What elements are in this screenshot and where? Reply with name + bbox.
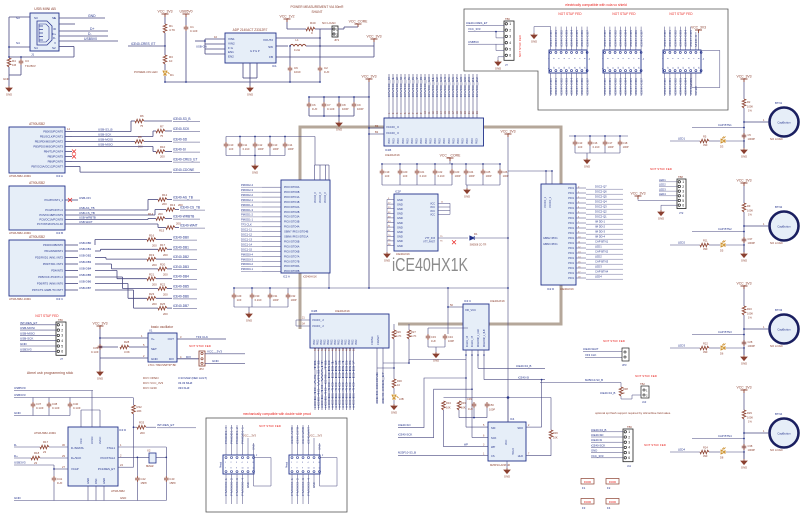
- power VCC_3V3 decouple: [366, 79, 373, 82]
- svg-text:IC2 D: IC2 D: [547, 287, 554, 291]
- svg-text:C16: C16: [593, 141, 598, 145]
- svg-text:1: 1: [291, 462, 292, 464]
- wire bank0 pin 8: [420, 74, 422, 118]
- svg-text:PMOD0-4: PMOD0-4: [241, 252, 253, 256]
- svg-text:PIO3 /DTO7B: PIO3 /DTO7B: [284, 260, 300, 263]
- capacitor C29: [232, 293, 237, 299]
- svg-text:iCE40-DB1: iCE40-DB1: [554, 29, 558, 47]
- svg-text:NOT STUF FED: NOT STUF FED: [635, 374, 658, 378]
- svg-text:PMOD1-1: PMOD1-1: [241, 218, 253, 222]
- svg-text:1UF: 1UF: [57, 481, 63, 485]
- capacitor C31: [268, 293, 273, 299]
- svg-text:VCC: VCC: [79, 438, 83, 444]
- wire xfi vcc: [448, 306, 463, 308]
- svg-text:USB5V0: USB5V0: [179, 10, 192, 14]
- resistor R3: [163, 55, 167, 64]
- wire bank1 row 16: [576, 267, 586, 269]
- wire caps gnd rail b: [466, 184, 500, 186]
- wire J5 bot pin 5: [690, 73, 692, 96]
- svg-text:iCE40-SI: iCE40-SI: [173, 148, 186, 152]
- svg-text:33.33 MHZ: 33.33 MHZ: [178, 381, 193, 385]
- stub GND 1: [387, 203, 394, 205]
- wire J3 top pin 7: [640, 27, 642, 50]
- wire bank1 row 0: [576, 187, 586, 189]
- svg-text:NO LOAD: NO LOAD: [770, 344, 783, 348]
- svg-text:1UF: 1UF: [431, 339, 436, 343]
- svg-text:DIV: DIV: [169, 357, 174, 361]
- svg-text:USB-CS_TB: USB-CS_TB: [79, 211, 95, 215]
- svg-text:OUT: OUT: [168, 337, 175, 341]
- wire R40 to vout: [319, 29, 321, 38]
- svg-text:4.7K: 4.7K: [411, 334, 417, 338]
- svg-text:PMOD2-4: PMOD2-4: [241, 183, 253, 187]
- svg-text:NOT STUF FED: NOT STUF FED: [558, 12, 582, 16]
- svg-text:USB-DB5: USB-DB5: [79, 273, 92, 277]
- svg-text:12: 12: [319, 468, 321, 470]
- wire J2 bot pin 5: [576, 73, 578, 96]
- svg-text:AT90USB2-16MU: AT90USB2-16MU: [34, 431, 56, 435]
- svg-text:SW: SW: [268, 45, 273, 49]
- wire bank1 row 9: [576, 232, 586, 234]
- wire bank2 pin 5: [332, 348, 334, 410]
- svg-text:100P: 100P: [342, 107, 349, 111]
- svg-text:iCE40-AS_TB: iCE40-AS_TB: [173, 196, 193, 200]
- svg-text:iCE40-DB1: iCE40-DB1: [668, 29, 672, 47]
- wire iCE40-DB2 a: [95, 257, 106, 259]
- resistor R21: [147, 277, 156, 281]
- wire wait: [65, 223, 158, 225]
- svg-text:D+: D+: [90, 27, 94, 31]
- ground decouple row: [336, 121, 342, 127]
- svg-text:10: 10: [169, 59, 173, 63]
- wire IC3D gnd pin: [87, 486, 89, 501]
- svg-text:iCE40-CRES_ET: iCE40-CRES_ET: [466, 21, 488, 25]
- wire J9 top pin 3: [308, 425, 310, 455]
- wire C6 top: [308, 97, 310, 102]
- wire usb5v0 to C1: [185, 17, 187, 25]
- svg-text:USB-DB3: USB-DB3: [79, 260, 92, 264]
- capacitor C2: [318, 66, 323, 72]
- svg-text:VCC: VCC: [430, 211, 435, 213]
- capacitor C28: [742, 340, 747, 346]
- power VCC_3V3 JT2: [635, 196, 642, 199]
- svg-text:GND: GND: [694, 86, 698, 95]
- wire bank3 row 17: [262, 270, 281, 272]
- wire iCE40-DB0 b: [94, 240, 96, 246]
- svg-text:GBIN3 /PIO1: GBIN3 /PIO1: [543, 243, 558, 246]
- wire J9 top pin 2: [302, 425, 304, 455]
- wire cdone row: [80, 171, 172, 173]
- svg-text:iCE40-DB2: iCE40-DB2: [559, 77, 563, 95]
- svg-text:R26: R26: [396, 330, 401, 334]
- junction creset: [164, 45, 166, 47]
- svg-text:iCE40-DB2: iCE40-DB2: [559, 29, 563, 47]
- svg-text:SHUNT: SHUNT: [312, 10, 323, 14]
- svg-text:8MHZ: 8MHZ: [146, 464, 154, 468]
- svg-text:R5: R5: [703, 135, 707, 139]
- svg-text:USB-AS_TB: USB-AS_TB: [79, 206, 95, 210]
- svg-text:PIO1: PIO1: [568, 237, 574, 240]
- svg-text:GND: GND: [97, 376, 103, 380]
- svg-text:JT2: JT2: [679, 211, 684, 215]
- svg-text:RCLKOR_1_CLK: RCLKOR_1_CLK: [478, 329, 480, 347]
- svg-text:PMOD1-4: PMOD1-4: [224, 426, 228, 444]
- svg-text:M25P10-AVM N6: M25P10-AVM N6: [490, 463, 511, 467]
- wire bank2 pin 8: [342, 348, 344, 410]
- svg-text:100P: 100P: [273, 147, 279, 151]
- svg-text:LED2: LED2: [678, 241, 685, 245]
- wire LED2 JT2: [659, 185, 677, 187]
- flash IC4: [488, 422, 526, 461]
- wire bank0 pin 21: [472, 74, 474, 118]
- stub VCC 0: [438, 202, 450, 204]
- svg-text:IC3 A: IC3 A: [56, 174, 63, 178]
- svg-text:C25: C25: [486, 170, 491, 174]
- svg-text:PIO3 /DTO4A: PIO3 /DTO4A: [284, 226, 300, 229]
- wire bank0 pin 18: [460, 74, 462, 118]
- svg-text:200: 200: [163, 312, 168, 316]
- stub VCC 1: [438, 206, 450, 208]
- wire cap BTN4 label: [692, 438, 744, 440]
- capacitor C6: [288, 66, 293, 72]
- svg-text:USB5V0: USB5V0: [84, 37, 97, 41]
- svg-text:R16: R16: [149, 233, 155, 237]
- wire iCE40-DB5 b: [122, 277, 124, 289]
- resistor R40: [306, 27, 315, 31]
- svg-text:6: 6: [628, 456, 630, 460]
- wire reset out: [118, 466, 134, 468]
- power VCC_3V3 dip3: [695, 30, 702, 33]
- svg-text:VCC_3V3: VCC_3V3: [500, 130, 515, 134]
- connector J7: [56, 322, 66, 355]
- wire C8 bottom: [338, 108, 340, 116]
- svg-text:PMOD2-2: PMOD2-2: [241, 193, 253, 197]
- svg-text:PMOD0-4: PMOD0-4: [241, 477, 245, 496]
- wire C38 bot: [48, 408, 50, 416]
- svg-text:PIO2: PIO2: [355, 339, 358, 345]
- svg-text:CapButton: CapButton: [777, 225, 791, 229]
- stub GND 6: [387, 226, 394, 228]
- capacitor C5: [742, 133, 747, 139]
- svg-text:GND: GND: [336, 127, 342, 131]
- svg-text:iCE40-DB6: iCE40-DB6: [580, 77, 584, 95]
- svg-text:PMOD2-1: PMOD2-1: [241, 198, 253, 202]
- svg-text:PIO1: PIO1: [568, 277, 574, 280]
- svg-text:GND: GND: [252, 444, 256, 450]
- svg-text:VCC_3V3: VCC_3V3: [468, 27, 481, 31]
- wire C6 bottom: [308, 108, 310, 116]
- svg-text:PIO3 /DTO0A: PIO3 /DTO0A: [284, 186, 300, 189]
- svg-text:BTN1: BTN1: [775, 101, 783, 105]
- capacitor C3: [19, 59, 24, 65]
- svg-text:5: 5: [313, 462, 314, 464]
- capacitor C12: [253, 142, 258, 148]
- svg-text:GND: GND: [584, 164, 590, 168]
- capacitor C1: [184, 25, 189, 31]
- svg-text:NOT STUF FED: NOT STUF FED: [189, 344, 212, 348]
- svg-text:R34: R34: [446, 401, 451, 405]
- svg-text:ADP 2140ACT Z3312R7: ADP 2140ACT Z3312R7: [233, 28, 268, 32]
- svg-text:CapButton: CapButton: [777, 432, 791, 436]
- svg-text:iCE40-DB3: iCE40-DB3: [679, 29, 683, 47]
- connector J1 usb glyph: [37, 21, 52, 45]
- wire vcc top: [91, 391, 93, 411]
- svg-text:iCE40-CRES_ET: iCE40-CRES_ET: [381, 372, 385, 404]
- wire set b: [129, 346, 148, 348]
- capacitor C40: [68, 402, 73, 408]
- svg-text:VCC_3V3: VCC_3V3: [157, 10, 172, 14]
- wire IC3D top pin 32: [91, 410, 93, 427]
- header J3: [603, 50, 641, 73]
- svg-text:10K: 10K: [461, 406, 466, 410]
- wire IC3D top pin 4: [80, 410, 82, 427]
- svg-text:PIO3 /DTO3A: PIO3 /DTO3A: [284, 216, 300, 219]
- svg-text:R8: R8: [138, 135, 142, 139]
- wire set a: [100, 346, 118, 348]
- svg-text:390: 390: [703, 454, 708, 458]
- svg-text:VCC_3V3: VCC_3V3: [736, 179, 751, 183]
- microcontroller IC3C: [9, 240, 65, 296]
- svg-text:4: 4: [61, 339, 63, 343]
- svg-text:PMOD0-3: PMOD0-3: [235, 477, 239, 496]
- microcontroller IC3B: [9, 186, 65, 230]
- microcontroller IC3D: [68, 427, 118, 486]
- junction shield: [8, 46, 10, 48]
- svg-text:USB-DB4: USB-DB4: [79, 267, 92, 271]
- svg-text:BTN4: BTN4: [775, 412, 783, 416]
- svg-text:GND: GND: [658, 216, 664, 220]
- svg-text:iCE40-DB0: iCE40-DB0: [663, 77, 667, 95]
- wire C37 top: [32, 398, 34, 403]
- resistor R6: [135, 119, 144, 123]
- wire J3 bot pin 4: [625, 73, 627, 96]
- wire J9 bot pin 1: [297, 474, 299, 504]
- svg-text:CAP BTN1: CAP BTN1: [718, 123, 732, 127]
- svg-text:iCE40-WRBTB: iCE40-WRBTB: [173, 215, 194, 219]
- svg-text:PD0/OC0B/INT0: PD0/OC0B/INT0: [43, 243, 63, 247]
- svg-text:PB6/PCINT6: PB6/PCINT6: [48, 160, 64, 164]
- svg-text:PIO0: PIO0: [402, 138, 405, 144]
- wire bank1 row 2: [576, 197, 586, 199]
- resistor R29: [742, 410, 746, 419]
- resistor R11: [700, 243, 709, 247]
- wire bank3 row 6: [262, 216, 281, 218]
- wire sw: [276, 45, 288, 47]
- svg-text:X1: X1: [149, 329, 153, 333]
- wire C7 bottom: [323, 108, 325, 116]
- capacitor C22: [433, 169, 438, 175]
- svg-text:AT90USB2: AT90USB2: [29, 181, 45, 185]
- wire bank2 pin 0: [314, 348, 316, 410]
- svg-text:GND: GND: [397, 225, 403, 229]
- svg-text:R29: R29: [747, 411, 752, 415]
- svg-text:USB5V0: USB5V0: [468, 40, 479, 44]
- svg-text:PIO0: PIO0: [439, 138, 442, 144]
- svg-text:S4: S4: [16, 41, 20, 45]
- svg-text:23: 23: [43, 450, 47, 454]
- svg-text:VCC__3V3: VCC__3V3: [243, 434, 257, 438]
- ground: [6, 86, 12, 92]
- wire vccio3 drop: [314, 137, 316, 166]
- svg-text:GND: GND: [384, 258, 390, 262]
- wire usb-on: [65, 199, 78, 201]
- wire OUT: [177, 338, 226, 340]
- wire sdo: [526, 426, 542, 428]
- power VCC_CORE: [355, 24, 362, 27]
- svg-text:4: 4: [509, 41, 511, 45]
- wire iCE40-DB3 a: [95, 263, 112, 265]
- wire L1 out: [306, 45, 374, 47]
- svg-text:iCE40-CSTB: iCE40-CSTB: [296, 427, 300, 444]
- svg-text:CAP BTN4: CAP BTN4: [595, 270, 609, 274]
- svg-text:R33: R33: [461, 401, 466, 405]
- wire R26 down: [393, 339, 395, 368]
- svg-text:R6: R6: [140, 114, 144, 118]
- svg-text:NOT STUF FED: NOT STUF FED: [669, 12, 693, 16]
- svg-text:iCE40-DB1: iCE40-DB1: [608, 29, 612, 47]
- svg-text:11: 11: [247, 468, 249, 470]
- svg-text:PIO1: PIO1: [568, 217, 574, 220]
- wire LED down: [164, 76, 166, 82]
- wire bank2 cfg 1: [382, 348, 384, 403]
- svg-text:PIO0: PIO0: [420, 138, 423, 144]
- resistor R2: [742, 99, 746, 108]
- svg-text:1: 1: [682, 180, 684, 184]
- svg-text:PMOD2-2: PMOD2-2: [296, 477, 300, 496]
- svg-text:iCE40-DB1: iCE40-DB1: [668, 77, 672, 95]
- wire BTN3 rail a: [743, 289, 745, 306]
- svg-text:C30: C30: [255, 294, 260, 298]
- svg-text:C33: C33: [431, 335, 436, 339]
- svg-text:SDI: SDI: [491, 426, 496, 430]
- oscillator X1: [148, 333, 177, 362]
- svg-text:GND: GND: [397, 239, 403, 243]
- wire hld: [526, 455, 551, 457]
- wire J2 bot pin 6: [581, 73, 583, 96]
- svg-text:TB6: TB6: [58, 318, 63, 322]
- ground BTN3: [741, 355, 747, 361]
- svg-text:L1: L1: [295, 38, 299, 42]
- svg-text:R38: R38: [623, 387, 628, 391]
- svg-text:USB-MISO: USB-MISO: [98, 143, 114, 147]
- svg-text:0.1UF: 0.1UF: [190, 29, 198, 33]
- wire J9 gnd bot: [313, 474, 315, 488]
- wire J9 bot pin 3: [308, 474, 310, 504]
- wire BTN3 rail b: [743, 315, 745, 355]
- resistor R22: [700, 346, 709, 350]
- wire bank0 pin 16: [452, 74, 454, 118]
- svg-text:VCC_3V3: VCC_3V3: [92, 322, 107, 326]
- outline box xula: [464, 9, 728, 110]
- button BTN3: [770, 315, 799, 344]
- wire 448 vertical: [447, 288, 449, 328]
- resistor R8: [135, 140, 144, 144]
- svg-text:GND: GND: [741, 258, 747, 262]
- svg-text:CAP BTN3: CAP BTN3: [718, 330, 732, 334]
- wire J2 top pin 7: [586, 27, 588, 50]
- wire c42 up: [136, 457, 138, 476]
- wire vcap: [54, 468, 68, 470]
- wire J3 bot pin 7: [640, 73, 642, 96]
- svg-text:3A: 3A: [302, 323, 305, 326]
- pin stub PB5/PCINT5: [65, 156, 72, 158]
- wire J3 bot pin 2: [614, 73, 616, 96]
- svg-text:VCCIO_ 0: VCCIO_ 0: [386, 131, 399, 135]
- wire iCE40-DB4 a: [95, 270, 117, 272]
- ground cdone led: [391, 404, 397, 410]
- wire usb-ss: [72, 131, 131, 133]
- svg-text:0.1UF: 0.1UF: [593, 145, 600, 149]
- wire cdone led down: [393, 368, 395, 379]
- svg-text:USB-WRBTB: USB-WRBTB: [79, 216, 96, 220]
- wire vcc down to flash: [507, 171, 509, 423]
- svg-text:GND: GND: [433, 358, 439, 362]
- FPGA IO bank3 IC2A: [281, 180, 330, 273]
- capacitor C8: [337, 102, 342, 108]
- wire gnd rail: [9, 74, 21, 76]
- svg-text:USB3V3: USB3V3: [20, 347, 32, 351]
- svg-text:FCLK1_15: FCLK1_15: [472, 335, 474, 347]
- connector J1 body: [30, 13, 59, 51]
- svg-text:1: 1: [61, 323, 63, 327]
- svg-text:1: 1: [509, 22, 511, 26]
- wire J3 top pin 2: [614, 27, 616, 50]
- wire flash gnd: [506, 461, 508, 468]
- FPGA IO bank0 IC1B: [384, 118, 484, 146]
- svg-text:1UH: 1UH: [294, 48, 300, 52]
- wire vin tie: [204, 39, 206, 54]
- svg-text:C13: C13: [578, 141, 583, 145]
- svg-text:PMOD1-3: PMOD1-3: [241, 208, 253, 212]
- svg-text:DSC1-13: DSC1-13: [241, 237, 253, 241]
- svg-text:S80508 2C-TR: S80508 2C-TR: [470, 244, 487, 247]
- wire ic3c pin2 drop: [471, 350, 473, 438]
- ground JT2: [658, 210, 664, 216]
- wire bank2 pin 4: [328, 348, 330, 410]
- power VCC_CORE caps: [447, 158, 454, 161]
- wire bank1 row 11: [576, 242, 586, 244]
- LED D6: [721, 344, 726, 351]
- wire vcc to R1: [164, 17, 166, 24]
- svg-text:VTT_FAST: VTT_FAST: [423, 241, 435, 244]
- svg-text:C3: C3: [25, 59, 29, 63]
- wire J5 top pin 3: [679, 27, 681, 50]
- svg-text:LED1: LED1: [659, 178, 666, 182]
- svg-text:C34: C34: [448, 335, 453, 339]
- svg-text:VCCIO_1: VCCIO_1: [548, 196, 552, 208]
- svg-text:VCCIO_1: VCCIO_1: [543, 196, 547, 208]
- wire usb-sck: [72, 136, 153, 138]
- header J2: [549, 50, 587, 73]
- svg-text:LED2: LED2: [595, 255, 602, 259]
- svg-text:R20: R20: [160, 263, 166, 267]
- svg-text:PIO0: PIO0: [452, 138, 455, 144]
- capacitor C7: [322, 102, 327, 108]
- svg-text:PMOD2-4: PMOD2-4: [307, 477, 311, 496]
- svg-text:0.1UF: 0.1UF: [73, 406, 81, 410]
- wire node to R3: [164, 46, 166, 55]
- svg-text:9: 9: [302, 468, 303, 470]
- wire bank1 row 6: [576, 217, 586, 219]
- stub VCC 3: [438, 213, 450, 215]
- wire bank1 row 1: [576, 192, 586, 194]
- svg-text:PIO3 /DTO7A: PIO3 /DTO7A: [284, 255, 300, 258]
- wire J5 bot pin 2: [674, 73, 676, 96]
- FPGA power block IC2F: [394, 194, 438, 251]
- svg-text:iCE40-DB4: iCE40-DB4: [624, 77, 628, 95]
- svg-text:PB3/PDO/MISO/PCINT3: PB3/PDO/MISO/PCINT3: [33, 145, 63, 149]
- fiducial F4: [606, 499, 619, 505]
